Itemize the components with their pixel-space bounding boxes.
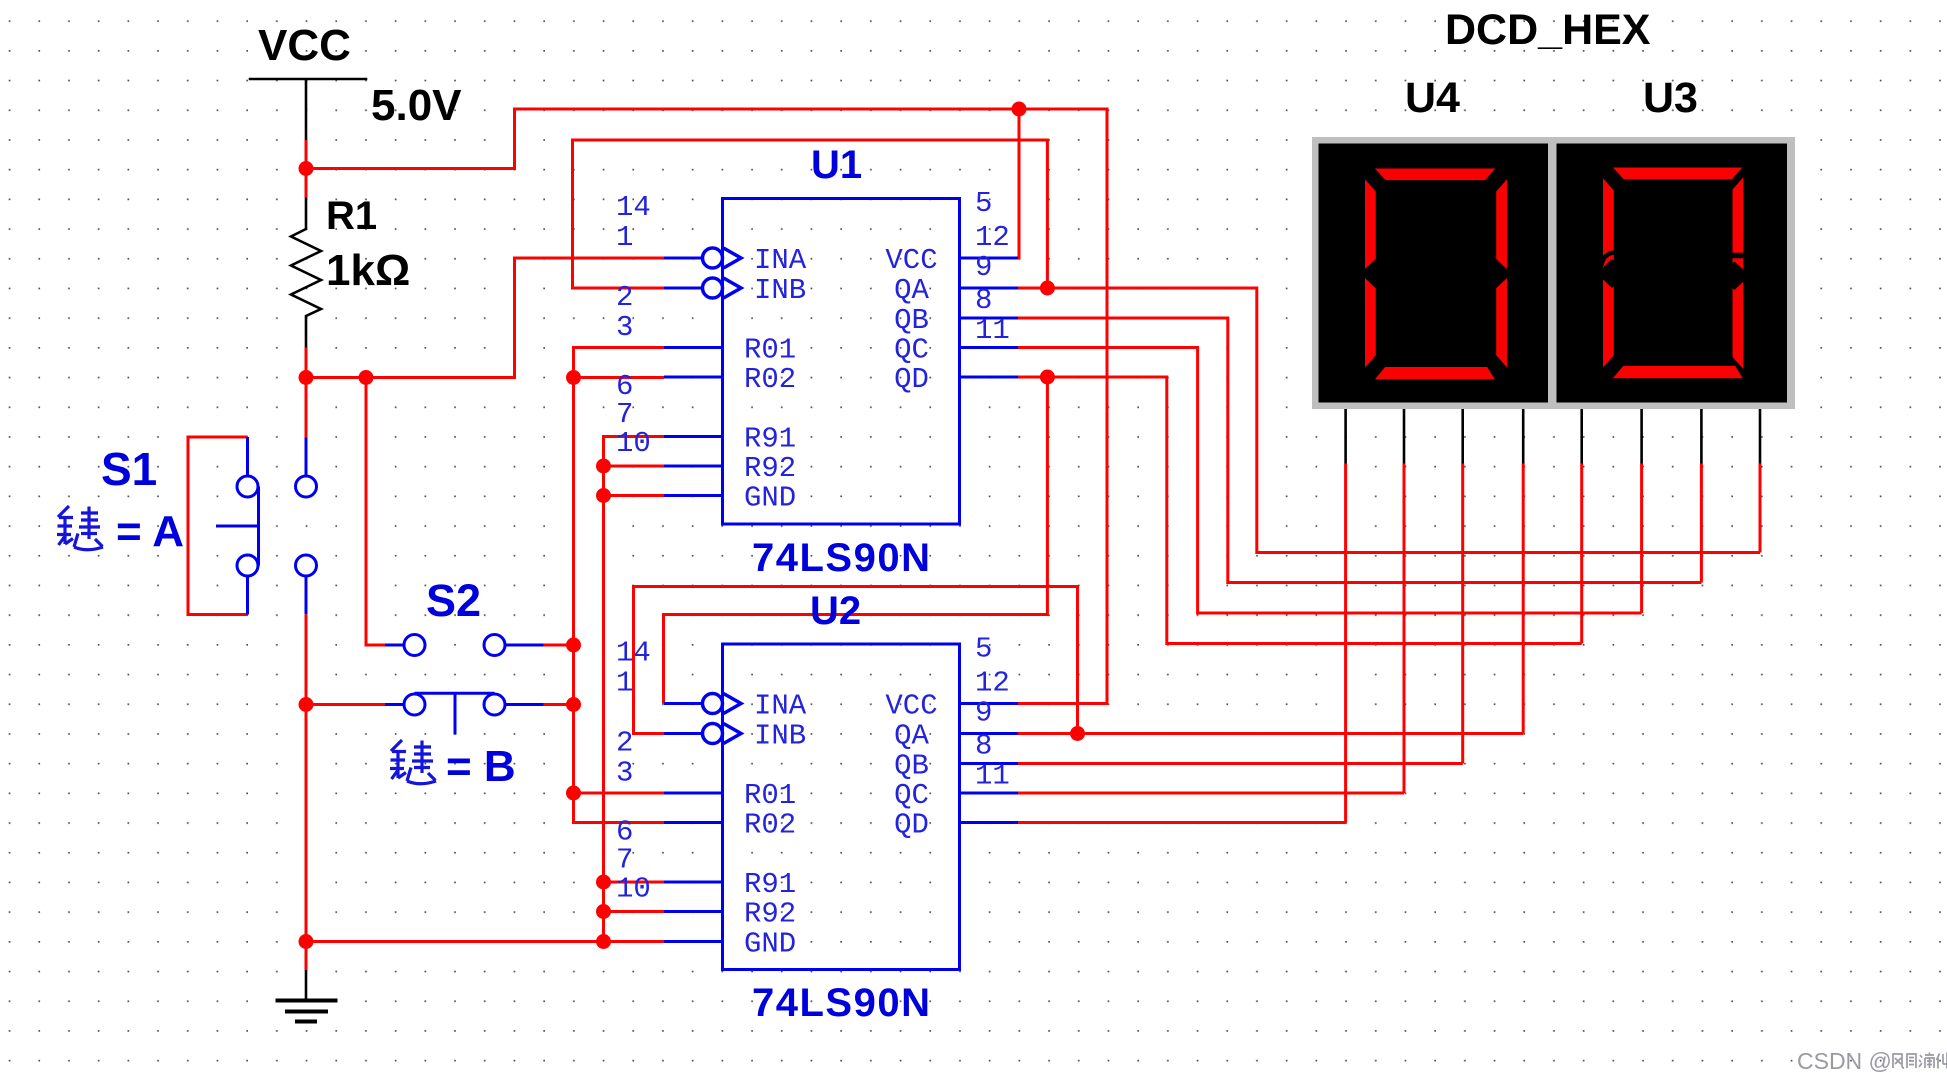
node ground rail junction	[299, 934, 314, 949]
U2 pin numbers left	[616, 637, 651, 906]
wire U2.QD to display U4 pin1	[1018, 821, 1346, 824]
segment A	[1375, 169, 1495, 181]
U2 pin names left	[744, 690, 807, 961]
wire U1.R02 feed	[574, 376, 665, 379]
svg-text:QB: QB	[894, 304, 929, 337]
svg-text:11: 11	[975, 760, 1010, 793]
svg-text:VCC: VCC	[258, 21, 351, 70]
wire U1.QD branch to U2.INA	[664, 377, 1048, 704]
svg-text:QB: QB	[894, 750, 929, 783]
U2 right pin stubs	[960, 704, 1019, 823]
switch S1 pole2 contact circles	[296, 476, 317, 497]
wire U1.QD to display U3 pin5	[1018, 377, 1582, 644]
svg-text:U4: U4	[1405, 74, 1460, 122]
display U4 digit 0 segments	[1365, 169, 1507, 380]
svg-text:S1: S1	[101, 443, 157, 495]
wire U1.QB to display U3 pin7	[1018, 318, 1701, 583]
svg-text:QA: QA	[894, 274, 929, 307]
svg-text:74LS90N: 74LS90N	[752, 981, 931, 1025]
wire reset net vertical U1.R01 to U2.R02	[574, 348, 665, 823]
wire U2.QB to display U4 pin3	[1018, 762, 1463, 765]
svg-text:10: 10	[616, 427, 651, 460]
display U4 pin wires red	[1346, 464, 1524, 823]
svg-text:U1: U1	[811, 143, 862, 187]
svg-text:1kΩ: 1kΩ	[326, 246, 410, 295]
wire U2.QC to display U4 pin2	[1018, 792, 1404, 795]
svg-text:5: 5	[975, 633, 992, 666]
wire keyA branch down to S2 upper-left contact	[366, 378, 385, 646]
node S2 lower-left junction	[299, 697, 314, 712]
wire branch to U1 VCC pin	[1018, 109, 1019, 258]
svg-text:2: 2	[616, 281, 633, 314]
U2 pin numbers right	[975, 633, 1010, 793]
display U3 black notches	[1597, 253, 1750, 291]
segment F+E bar	[1603, 178, 1614, 367]
svg-text:INB: INB	[754, 720, 806, 753]
svg-text:9: 9	[975, 251, 992, 284]
U2 left pin stubs	[664, 704, 723, 942]
watermark CSDN	[1797, 1048, 1947, 1074]
svg-text:= A: = A	[116, 507, 184, 556]
label key = B glyph 键	[390, 740, 436, 784]
svg-text:R92: R92	[744, 898, 796, 931]
wire S2 right contacts to reset net	[544, 645, 574, 705]
svg-text:= B: = B	[446, 742, 516, 791]
switch S1 actuator	[216, 525, 259, 528]
svg-text:U3: U3	[1643, 74, 1698, 122]
svg-text:GND: GND	[744, 928, 796, 961]
segment A	[1613, 168, 1742, 180]
node keyA junction under R1	[299, 370, 314, 385]
svg-text:3: 3	[616, 311, 633, 344]
wire U1.QC to display U3 pin6	[1018, 348, 1642, 614]
display frame grey	[1312, 137, 1795, 409]
svg-text:14: 14	[616, 191, 651, 224]
switch S2 upper contact circles	[404, 635, 425, 656]
svg-text:12: 12	[975, 667, 1010, 700]
svg-text:R01: R01	[744, 779, 796, 812]
U1 pin names right	[885, 244, 937, 396]
svg-text:9: 9	[975, 697, 992, 730]
wire to S2 lower-left contact	[306, 703, 385, 706]
wire R9x net chain	[604, 437, 665, 942]
svg-text:1: 1	[616, 667, 633, 700]
wire S1 pole2 top lead red	[305, 378, 308, 438]
ground symbol	[276, 970, 338, 1022]
svg-text:CSDN @: CSDN @	[1797, 1048, 1892, 1074]
switch S1 pole1 leads	[246, 437, 249, 615]
display U3 pin wires red	[1582, 464, 1760, 644]
power VCC symbol bar	[249, 78, 368, 81]
node U1.QD junction	[1040, 370, 1055, 385]
wire S1 pole2 bottom red	[305, 614, 308, 941]
display U3 digit segments	[1603, 168, 1743, 379]
svg-text:5.0V: 5.0V	[371, 81, 462, 130]
U2 INB clock bubble	[703, 724, 723, 744]
power VCC lead wire	[305, 79, 308, 140]
wire ground rail	[306, 940, 664, 943]
switch S2 actuator	[454, 693, 457, 734]
switch S1 pole2 leads	[305, 438, 308, 615]
display U4 pins black stubs	[1346, 409, 1524, 464]
svg-text:3: 3	[616, 757, 633, 790]
svg-text:INA: INA	[754, 244, 807, 277]
U1 INB clock bubble	[703, 278, 723, 298]
svg-text:R91: R91	[744, 868, 796, 901]
U1 INA clock bubble	[703, 248, 723, 268]
svg-text:R92: R92	[744, 452, 796, 485]
svg-text:INA: INA	[754, 690, 807, 723]
svg-text:11: 11	[975, 314, 1010, 347]
wire red above R1	[305, 169, 308, 198]
U2 pin names right	[885, 690, 937, 842]
node VCC junction at R1 top	[299, 161, 314, 176]
node VCC top-rail junction	[1012, 102, 1027, 117]
switch S2 contact bar	[415, 692, 495, 695]
op IC U1 74LS90N box	[723, 199, 960, 525]
U1 pin numbers left	[616, 191, 651, 460]
U1 pin numbers right	[975, 187, 1010, 347]
wire U1.QA to display U3 pin8	[1018, 288, 1760, 553]
node U2.QA junction	[1070, 726, 1085, 741]
svg-text:VCC: VCC	[885, 244, 937, 277]
display U3 pins black stubs	[1582, 409, 1760, 464]
label key = A glyph 键	[57, 506, 103, 550]
segment E	[1365, 278, 1376, 368]
svg-text:12: 12	[975, 221, 1010, 254]
switch S1 pole1 contact circles	[237, 476, 258, 497]
segment D	[1375, 367, 1495, 379]
switch S1 contact bar	[257, 487, 260, 566]
wire keyA net to U1 INA	[306, 258, 664, 378]
svg-text:QC: QC	[894, 779, 929, 812]
svg-text:74LS90N: 74LS90N	[752, 536, 931, 580]
node keyA branch junction	[359, 370, 374, 385]
svg-text:8: 8	[975, 284, 992, 317]
svg-text:1: 1	[616, 221, 633, 254]
wire U2.QA to display U4 pin4	[1018, 732, 1523, 735]
wire U1.QA to U1.INB loop	[573, 140, 1048, 288]
segment C	[1496, 278, 1507, 368]
svg-text:2: 2	[616, 727, 633, 760]
svg-text:QD: QD	[894, 363, 929, 396]
U1 left pin stubs	[664, 258, 723, 496]
node U1.QA junction	[1040, 281, 1055, 296]
segment F	[1365, 179, 1376, 269]
switch S2 lower contact circles	[404, 694, 425, 715]
U1 right pin stubs	[960, 258, 1019, 377]
svg-text:S2: S2	[426, 575, 481, 626]
switch S2 upper pole leads blue	[385, 644, 544, 647]
svg-text:INB: INB	[754, 274, 806, 307]
svg-text:GND: GND	[744, 482, 796, 515]
segment B	[1496, 179, 1507, 269]
op IC U2 74LS90N box	[723, 644, 960, 970]
svg-text:R02: R02	[744, 363, 796, 396]
svg-text:U2: U2	[810, 589, 861, 633]
display U4 body	[1319, 144, 1549, 403]
svg-text:QD: QD	[894, 809, 929, 842]
svg-text:10: 10	[616, 873, 651, 906]
wire VCC net: junction to top rail to U2 VCC	[306, 109, 1107, 704]
svg-text:14: 14	[616, 637, 651, 670]
svg-text:R91: R91	[744, 423, 796, 456]
svg-text:QA: QA	[894, 720, 929, 753]
switch S1 shorting loop red	[188, 437, 248, 615]
U1 pin names left	[744, 244, 807, 515]
svg-text:QC: QC	[894, 334, 929, 367]
U2 INA clock bubble	[703, 694, 723, 714]
svg-text:8: 8	[975, 730, 992, 763]
svg-text:R1: R1	[326, 194, 377, 238]
segment B+C bar	[1733, 177, 1744, 369]
wire U2.R01 feed	[574, 792, 665, 795]
node R9x junctions	[596, 459, 611, 474]
svg-text:DCD_HEX: DCD_HEX	[1445, 6, 1651, 54]
switch S2 lower pole leads blue	[385, 703, 544, 706]
wire U2.QA to U2.INB loop	[634, 587, 1078, 734]
svg-text:5: 5	[975, 187, 992, 220]
svg-text:R02: R02	[744, 809, 796, 842]
resistor R1	[291, 198, 321, 348]
display U3 body	[1557, 144, 1788, 403]
segment D	[1613, 366, 1743, 378]
wire R1 leads red	[305, 348, 308, 378]
wire ground drop red	[305, 942, 308, 971]
svg-text:VCC: VCC	[885, 690, 937, 723]
svg-text:R01: R01	[744, 334, 796, 367]
node reset junctions	[566, 370, 581, 385]
